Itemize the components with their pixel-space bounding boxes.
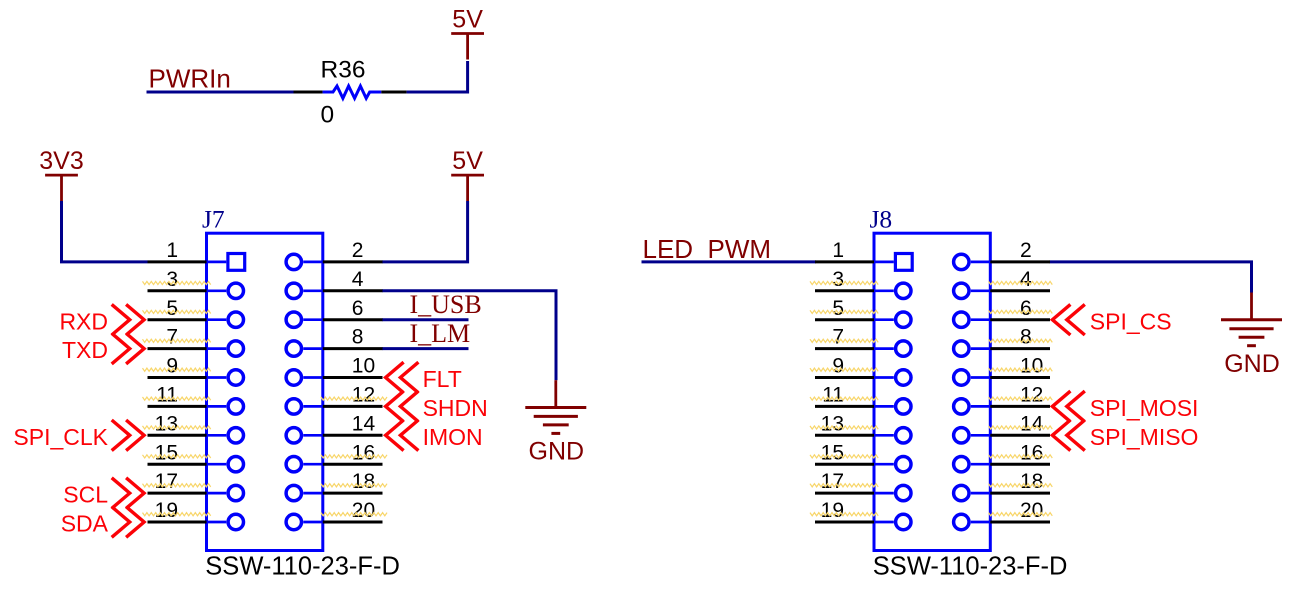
svg-text:SPI_MOSI: SPI_MOSI [1090,395,1199,421]
J7 pin 17 no-connect squiggle [143,484,211,487]
J8 pin 11 pad [896,399,911,414]
J8 row 5 interior wires [874,376,990,379]
J7 row 8 interior wires [207,463,323,466]
port chevron TXD [112,333,144,364]
wire LED_PWM to J8 pin1 [642,260,817,263]
J8 pin 13 pad [896,428,911,443]
J7 pin 4 stub wire [323,289,383,292]
J7 pin 12 pad [286,399,301,414]
J8 pin 16 no-connect squiggle [989,455,1053,458]
J8 pin 6 no-connect squiggle [989,310,1053,313]
J8 pin number 18 [1020,470,1043,493]
svg-text:0: 0 [321,102,335,129]
J7 pin number 17 [155,470,178,493]
net label I_USB [410,290,482,319]
J8 pin number 10 [1020,355,1043,378]
J7 pin number 12 [352,384,375,407]
wire 3V3 to J7 pin1 [62,201,148,262]
svg-text:15: 15 [155,441,178,464]
svg-text:19: 19 [821,499,844,522]
J7 pin 18 no-connect squiggle [321,484,387,487]
J7 pin number 9 [166,355,178,378]
J7 pin 13 pad [228,428,243,443]
J8 pin 15 pad [896,457,911,472]
net label LED_PWM [643,234,772,264]
J8 pin number 5 [832,297,844,320]
svg-text:9: 9 [832,355,844,378]
J7 pin number 13 [155,412,178,435]
svg-text:J7: J7 [202,205,225,234]
J7 pin 1 square pad [228,254,245,271]
svg-text:7: 7 [832,326,844,349]
svg-text:2: 2 [352,239,364,262]
port label SPI_MISO [1090,424,1199,450]
port label RXD [59,308,108,334]
J7 pin 14 stub wire [323,434,383,437]
J8 pin number 8 [1020,326,1032,349]
svg-text:9: 9 [166,355,178,378]
J7 pin number 18 [352,470,375,493]
J7 pin 6 pad [286,312,301,327]
J7 pin 14 pad [286,428,301,443]
svg-text:13: 13 [821,412,844,435]
svg-text:3: 3 [832,268,844,291]
J7 pin 9 no-connect squiggle [143,368,211,371]
port chevron SPI_CS [1052,304,1084,335]
J7 pin 20 pad [286,514,301,529]
svg-text:RXD: RXD [59,308,108,334]
svg-text:6: 6 [1020,297,1032,320]
port chevron SPI_MOSI [1052,391,1084,422]
connector J7 body [207,233,323,550]
J7 pin 15 stub wire [148,463,207,466]
J8 row 4 interior wires [874,347,990,350]
J8 pin 12 pad [954,399,969,414]
svg-text:J8: J8 [870,205,893,234]
J7 pin number 11 [156,384,178,407]
connector J8 designator [870,205,893,234]
J8 pin 20 no-connect squiggle [989,513,1053,516]
J7 row 2 interior wires [207,289,323,292]
J8 pin 7 stub wire [815,347,874,350]
J7 pin 10 pad [286,370,301,385]
port chevron SPI_CLK [112,420,144,451]
J8 pin 18 stub wire [990,492,1050,495]
J7 pin 5 no-connect squiggle [143,310,211,313]
J8 pin 5 no-connect squiggle [810,310,878,313]
J8 pin number 13 [821,412,844,435]
svg-text:GND: GND [529,438,585,466]
J8 pin 1 stub wire [815,260,874,263]
J7 pin 16 no-connect squiggle [321,455,387,458]
J8 pin number 3 [832,268,844,291]
net label I_LM [410,319,471,348]
port chevron RXD [112,304,144,335]
J8 pin 14 stub wire [990,434,1050,437]
J8 pin 10 pad [954,370,969,385]
svg-text:20: 20 [352,499,375,522]
connector J7 designator [202,205,225,234]
J8 pin number 4 [1020,268,1032,291]
port label IMON [423,424,483,450]
J7 pin 8 pad [286,341,301,356]
J7 pin 20 stub wire [323,521,383,524]
svg-text:I_LM: I_LM [410,319,471,348]
J8 pin 5 stub wire [815,318,874,321]
J8 row 3 interior wires [874,318,990,321]
J7 pin number 19 [155,499,178,522]
J8 row 1 interior wires [874,261,990,264]
J8 pin number 9 [832,355,844,378]
J8 pin 17 pad [896,485,911,500]
J7 pin 4 pad [286,283,301,298]
J8 row 6 interior wires [874,405,990,408]
net label PWRIn [149,63,231,93]
svg-text:SHDN: SHDN [423,395,488,421]
svg-text:SCL: SCL [63,482,108,508]
wire PWRIn [147,91,296,94]
svg-text:5V: 5V [452,147,483,175]
J7 row 7 interior wires [207,434,323,437]
svg-text:15: 15 [821,441,844,464]
svg-text:FLT: FLT [423,366,462,392]
J8 pin 17 stub wire [815,492,874,495]
svg-text:LED_PWM: LED_PWM [643,234,772,264]
J8 pin 2 pad [954,254,969,269]
J7 row 10 interior wires [207,521,323,524]
connector J8 body [874,233,990,550]
wire net I_USB [382,318,469,321]
svg-text:SSW-110-23-F-D: SSW-110-23-F-D [205,553,400,581]
port chevron SCL [112,478,144,509]
J7 pin number 6 [352,297,364,320]
port label SPI_CLK [13,424,108,450]
J7 pin number 15 [155,441,178,464]
J8 pin number 7 [832,326,844,349]
J7 pin 18 pad [286,485,301,500]
svg-text:4: 4 [1020,268,1032,291]
svg-text:19: 19 [155,499,178,522]
J8 pin 8 pad [954,341,969,356]
port label SHDN [423,395,488,421]
J7 pin 3 no-connect squiggle [143,281,211,284]
J7 pin 13 stub wire [148,434,207,437]
J8 pin 7 pad [896,341,911,356]
J7 pin 17 stub wire [148,492,207,495]
J8 row 2 interior wires [874,289,990,292]
J8 pin 11 no-connect squiggle [810,397,878,400]
svg-text:10: 10 [352,355,375,378]
port chevron SDA [112,507,144,538]
J7 pin 11 no-connect squiggle [143,397,211,400]
J8 pin 3 stub wire [815,289,874,292]
J7 pin 2 pad [286,254,301,269]
J8 pin 11 stub wire [815,405,874,408]
resistor R36 [294,86,407,98]
J7 pin 5 pad [228,312,243,327]
J8 pin 13 stub wire [815,434,874,437]
J8 row 7 interior wires [874,434,990,437]
svg-text:SSW-110-23-F-D: SSW-110-23-F-D [873,553,1068,581]
J7 pin 6 stub wire [323,318,383,321]
J8 pin 1 square pad [895,254,912,271]
svg-text:TXD: TXD [62,337,108,363]
J8 pin 18 pad [954,485,969,500]
svg-text:I_USB: I_USB [410,290,482,319]
J8 row 9 interior wires [874,492,990,495]
J8 pin number 19 [821,499,844,522]
J8 pin 16 stub wire [990,463,1050,466]
svg-text:20: 20 [1020,499,1043,522]
J7 pin 5 stub wire [148,318,207,321]
port label SCL [63,482,108,508]
svg-text:12: 12 [1020,384,1043,407]
wire net I_LM [382,347,469,350]
J8 pin 4 stub wire [990,289,1050,292]
J8 pin 13 no-connect squiggle [810,426,878,429]
J7 row 6 interior wires [207,405,323,408]
svg-text:1: 1 [166,239,178,262]
J8 pin number 20 [1020,499,1043,522]
J7 pin 10 stub wire [323,376,383,379]
J7 row 5 interior wires [207,376,323,379]
svg-text:3V3: 3V3 [39,147,83,175]
svg-text:13: 13 [155,412,178,435]
J8 pin number 6 [1020,297,1032,320]
svg-text:SPI_CS: SPI_CS [1090,308,1172,334]
power port 5V J7 pin2 [451,147,484,201]
J7 pin 16 stub wire [323,463,383,466]
J8 pin 9 no-connect squiggle [810,368,878,371]
port label SDA [61,511,109,537]
svg-text:2: 2 [1020,239,1032,262]
J8 pin 9 pad [896,370,911,385]
J8 pin 15 stub wire [815,463,874,466]
J8 pin number 17 [821,470,844,493]
J7 pin 3 stub wire [148,289,207,292]
J7 pin number 20 [352,499,375,522]
svg-text:12: 12 [352,384,375,407]
J8 pin 8 stub wire [990,347,1050,350]
wire 5V to J7 pin2 [382,201,468,262]
J7 row 3 interior wires [207,318,323,321]
svg-text:11: 11 [822,384,844,407]
J7 pin 17 pad [228,485,243,500]
J8 pin 14 pad [954,428,969,443]
power port 5V top [451,5,484,59]
J7 pin number 5 [166,297,178,320]
J7 pin 3 pad [228,283,243,298]
ground GND J8 [1221,293,1282,378]
J7 pin 19 pad [228,514,243,529]
svg-text:5: 5 [166,297,178,320]
J8 pin 20 stub wire [990,521,1050,524]
J7 pin 11 stub wire [148,405,207,408]
J8 pin number 11 [822,384,844,407]
J8 pin 6 pad [954,312,969,327]
J7 pin 2 stub wire [323,260,383,263]
svg-text:SPI_MISO: SPI_MISO [1090,424,1199,450]
J7 pin 15 no-connect squiggle [143,455,211,458]
svg-text:14: 14 [352,412,376,435]
J8 pin 20 pad [954,514,969,529]
port label SPI_CS [1090,308,1172,334]
J7 pin number 3 [166,268,178,291]
J7 pin 12 stub wire [323,405,383,408]
J8 pin 3 pad [896,283,911,298]
svg-text:SPI_CLK: SPI_CLK [13,424,108,450]
J8 pin number 15 [821,441,844,464]
J8 pin number 12 [1020,384,1043,407]
J7 row 9 interior wires [207,492,323,495]
svg-text:18: 18 [352,470,375,493]
port label FLT [423,366,462,392]
J8 pin number 1 [832,239,844,262]
J7 pin 11 pad [228,399,243,414]
svg-text:1: 1 [832,239,844,262]
svg-text:17: 17 [155,470,178,493]
J8 pin 17 no-connect squiggle [810,484,878,487]
J7 pin 13 no-connect squiggle [143,426,211,429]
svg-text:4: 4 [352,268,364,291]
J7 row 4 interior wires [207,347,323,350]
port chevron FLT [386,362,419,393]
J8 row 8 interior wires [874,463,990,466]
port chevron SHDN [386,391,419,422]
J8 pin 4 pad [954,283,969,298]
J8 pin 12 no-connect squiggle [989,397,1053,400]
svg-text:3: 3 [166,268,178,291]
J8 pin 8 no-connect squiggle [989,339,1053,342]
port chevron IMON [386,420,419,451]
connector J7 part number [205,553,400,581]
J7 row 1 interior wires [207,261,323,264]
svg-text:5V: 5V [452,5,483,33]
J8 pin number 14 [1020,412,1044,435]
J7 pin 16 pad [286,457,301,472]
J7 pin 15 pad [228,457,243,472]
J8 pin 12 stub wire [990,405,1050,408]
J7 pin 19 stub wire [148,521,207,524]
J7 pin 9 pad [228,370,243,385]
J8 pin 16 pad [954,457,969,472]
svg-text:17: 17 [821,470,844,493]
svg-text:11: 11 [156,384,178,407]
J8 pin 9 stub wire [815,376,874,379]
J7 pin number 1 [166,239,178,262]
J7 pin 8 stub wire [323,347,383,350]
svg-text:5: 5 [832,297,844,320]
J8 pin 4 no-connect squiggle [989,281,1053,284]
connector J8 part number [873,553,1068,581]
wire J7 pin4 to GND [382,291,556,380]
J8 pin 19 stub wire [815,521,874,524]
svg-text:8: 8 [1020,326,1032,349]
J7 pin 19 no-connect squiggle [143,513,211,516]
J8 pin 19 pad [896,514,911,529]
J7 pin number 14 [352,412,376,435]
J7 pin 9 stub wire [148,376,207,379]
J8 pin 7 no-connect squiggle [810,339,878,342]
label R36 designator [321,57,366,84]
J7 pin 7 stub wire [148,347,207,350]
J7 pin 1 stub wire [148,260,207,263]
J8 pin 15 no-connect squiggle [810,455,878,458]
svg-text:SDA: SDA [61,511,109,537]
J7 pin 12 no-connect squiggle [321,397,387,400]
J7 pin number 10 [352,355,375,378]
ground GND J7 [525,380,586,465]
J8 pin 6 stub wire [990,318,1050,321]
svg-text:10: 10 [1020,355,1043,378]
J7 pin number 2 [352,239,364,262]
J7 pin 7 no-connect squiggle [143,339,211,342]
svg-text:IMON: IMON [423,424,483,450]
svg-text:8: 8 [352,326,364,349]
svg-text:7: 7 [166,326,178,349]
J7 pin 7 pad [228,341,243,356]
J8 pin 3 no-connect squiggle [810,281,878,284]
J7 pin number 7 [166,326,178,349]
J8 pin number 16 [1020,441,1043,464]
J7 pin 20 no-connect squiggle [321,513,387,516]
J8 pin number 2 [1020,239,1032,262]
J8 row 10 interior wires [874,521,990,524]
port chevron SPI_MISO [1052,420,1084,451]
label R36 value 0 [321,102,335,129]
svg-text:18: 18 [1020,470,1043,493]
svg-text:16: 16 [352,441,375,464]
J8 pin 2 stub wire [990,260,1050,263]
svg-text:14: 14 [1020,412,1044,435]
svg-text:6: 6 [352,297,364,320]
svg-text:16: 16 [1020,441,1043,464]
J7 pin 18 stub wire [323,492,383,495]
J8 pin 10 stub wire [990,376,1050,379]
J8 pin 18 no-connect squiggle [989,484,1053,487]
svg-text:R36: R36 [321,57,366,84]
J7 pin number 4 [352,268,364,291]
J8 pin 14 no-connect squiggle [989,426,1053,429]
wire R36 to 5V [407,61,468,92]
port label TXD [62,337,108,363]
J7 pin number 16 [352,441,375,464]
J8 pin 19 no-connect squiggle [810,513,878,516]
svg-text:PWRIn: PWRIn [149,63,231,93]
wire J8 pin2 to GND [1050,262,1252,293]
power port 3V3 [39,147,83,201]
svg-text:GND: GND [1224,350,1280,378]
J7 pin number 8 [352,326,364,349]
J8 pin 10 no-connect squiggle [989,368,1053,371]
J8 pin 5 pad [896,312,911,327]
port label SPI_MOSI [1090,395,1199,421]
